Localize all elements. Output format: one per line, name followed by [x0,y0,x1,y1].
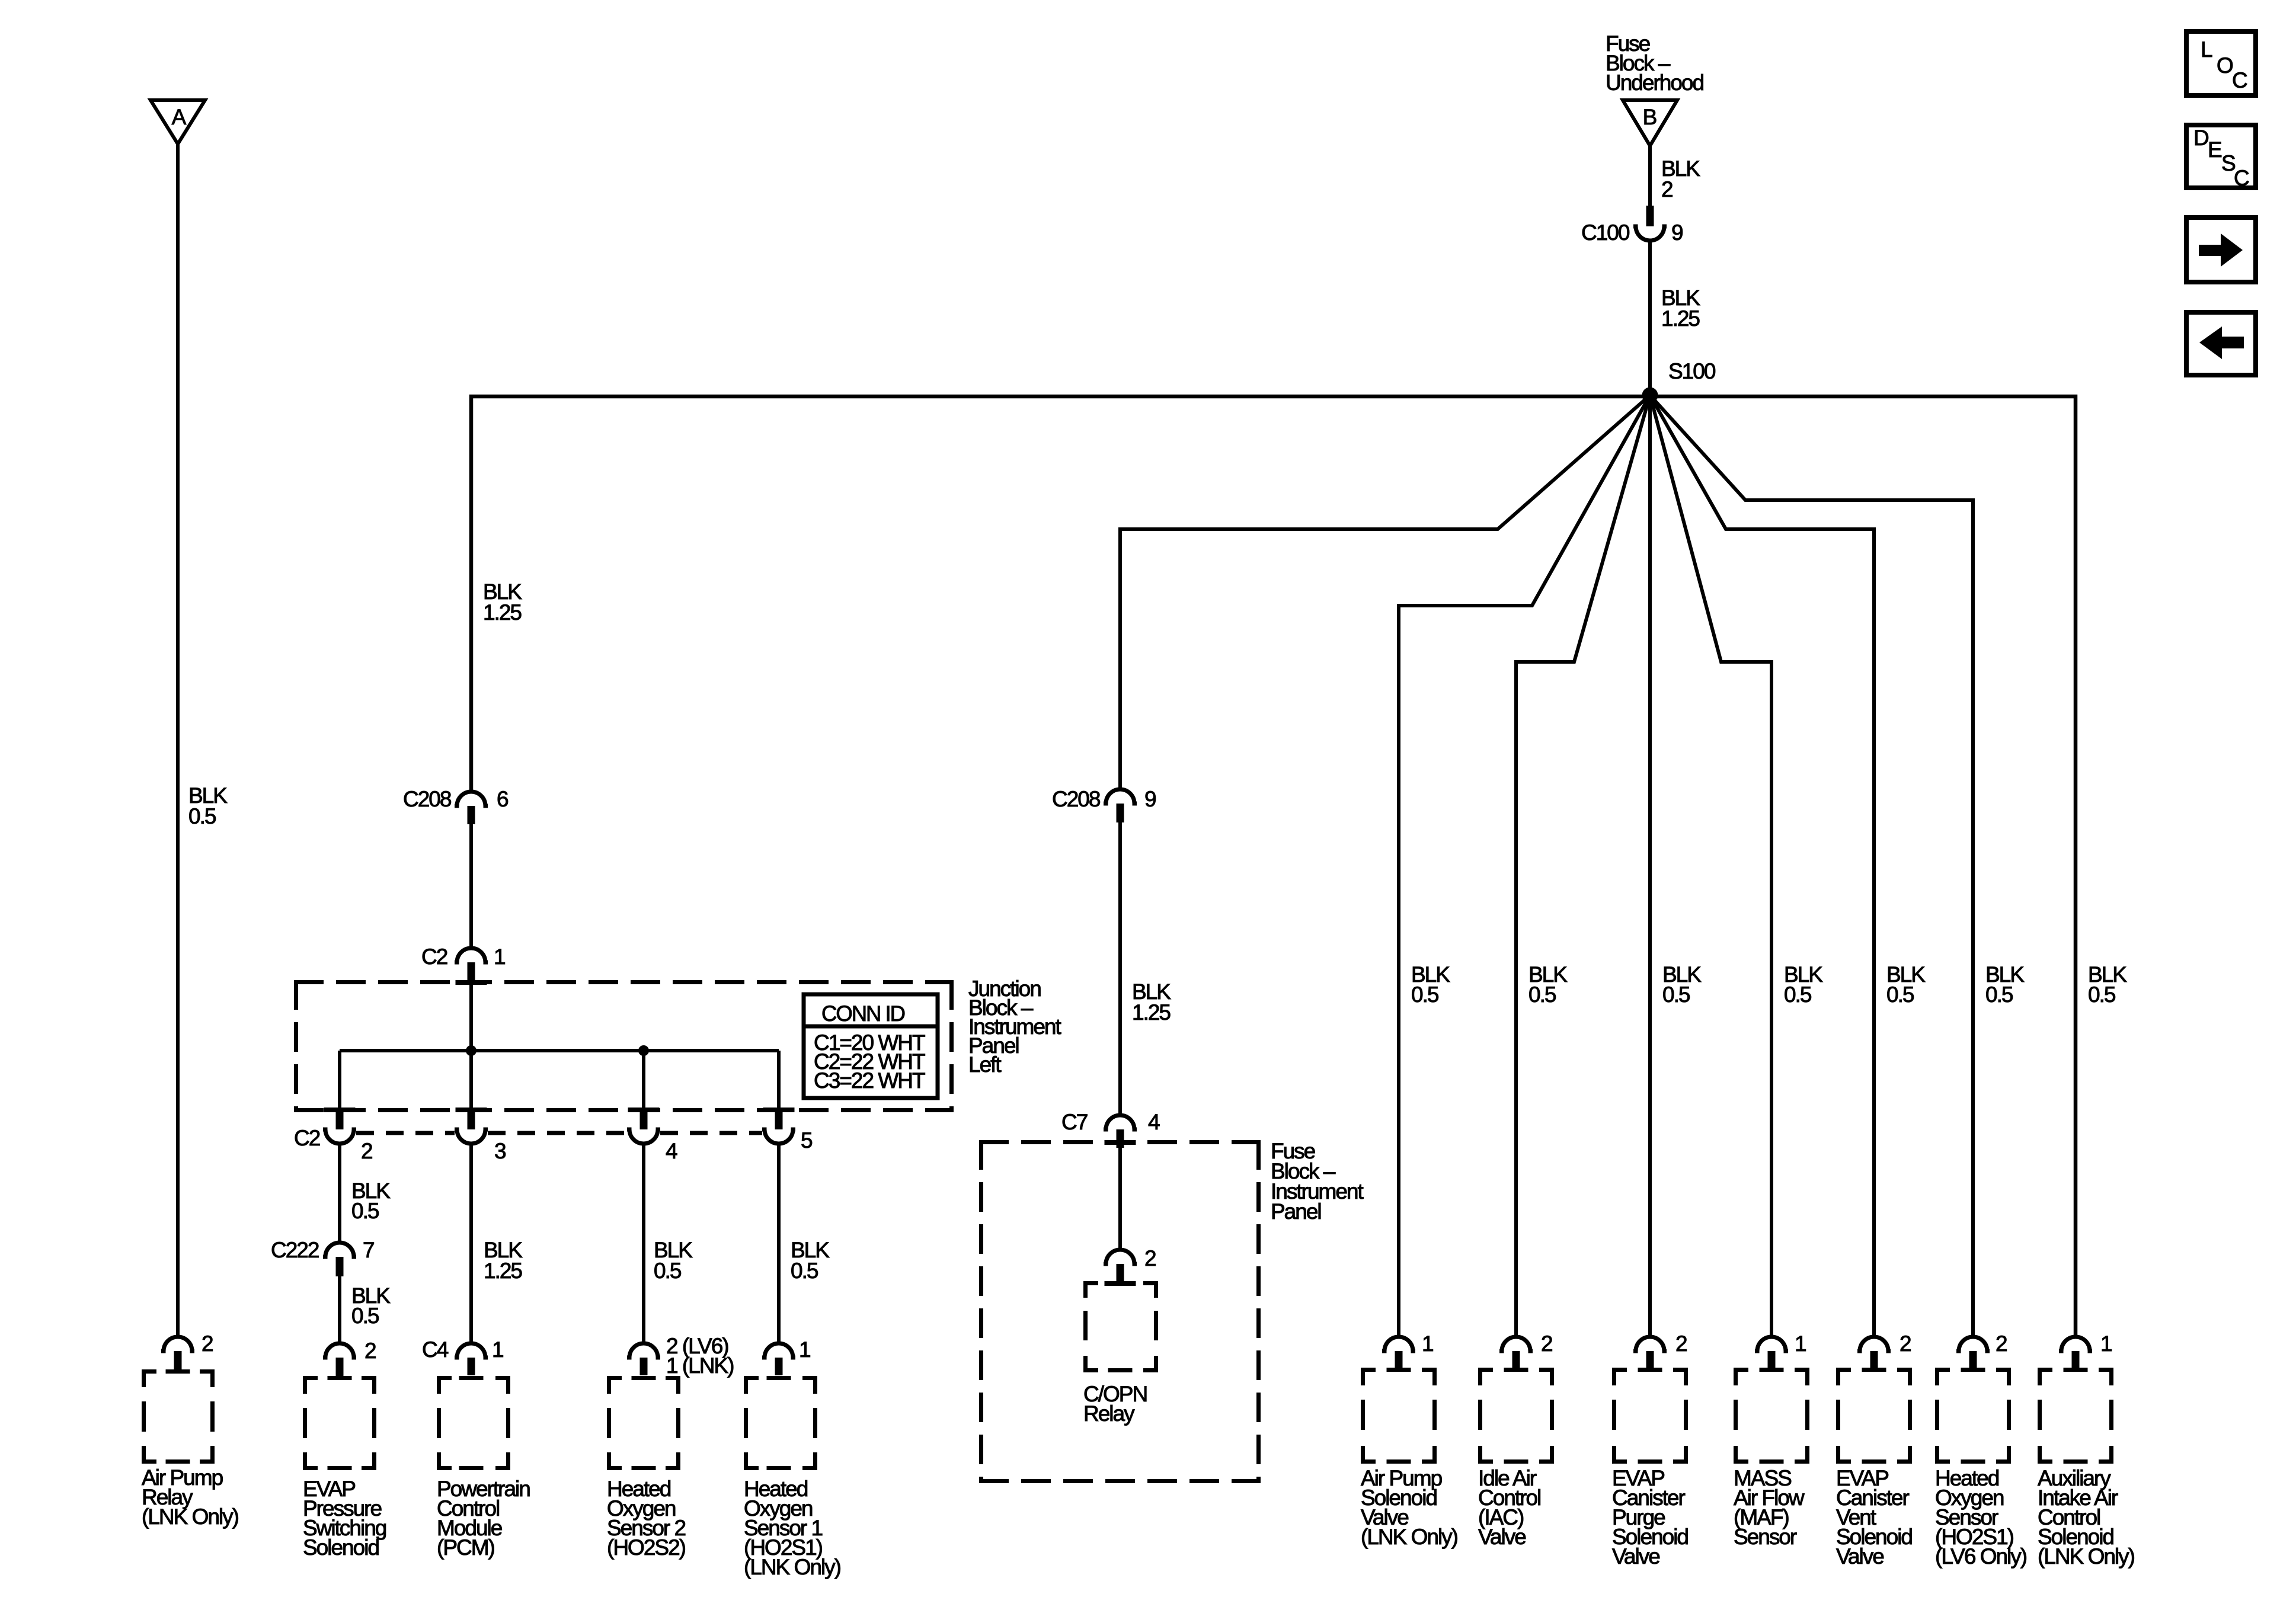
svg-text:O: O [2217,53,2233,78]
connector Heated Oxygen Sensor HO2S1 pin 2 [1956,1331,2007,1369]
connector EVAP Canister Vent Solenoid Valve pin 2 [1857,1331,1911,1369]
CONN ID table [804,994,938,1098]
svg-text:3: 3 [494,1139,506,1163]
svg-text:0.5: 0.5 [1784,982,1812,1007]
connector EVAP solenoid pin 2 [323,1339,376,1376]
svg-text:2: 2 [1996,1331,2007,1356]
wire A to Air Pump Relay [176,144,180,1337]
DESC legend box [2186,125,2256,190]
connector HO2S2 pins [627,1334,734,1378]
svg-text:C100: C100 [1581,220,1630,245]
svg-text:4: 4 [1148,1110,1160,1134]
svg-text:1: 1 [492,1337,503,1362]
component box Heated Oxygen Sensor HO2S1 [1935,1368,2011,1464]
svg-text:1: 1 [494,945,505,969]
component box EVAP Canister Vent Solenoid Valve [1836,1368,1912,1464]
wire stub to C2-4 [642,1051,645,1112]
svg-text:0.5: 0.5 [791,1259,818,1283]
component box Air Pump Solenoid Valve [1361,1368,1437,1464]
svg-text:9: 9 [1671,220,1683,245]
junction block dashed box [294,980,954,1112]
label BLK 1.25 [483,580,522,625]
svg-text:Valve: Valve [1836,1544,1884,1569]
svg-text:(LNK Only): (LNK Only) [142,1505,239,1529]
wire C208-9 to C7-4 [1118,822,1122,1115]
junction node [638,1045,649,1056]
label C/OPN Relay [1083,1382,1147,1426]
svg-text:Underhood: Underhood [1606,71,1704,95]
wire internal bus [340,1049,779,1052]
svg-text:1: 1 [1795,1331,1806,1356]
connector EVAP Canister Purge Solenoid Valve pin 2 [1633,1331,1687,1369]
svg-text:S100: S100 [1668,359,1716,383]
component box Heated Oxygen Sensor 1 [744,1376,817,1470]
svg-text:9: 9 [1144,787,1156,811]
splice S100 [1642,388,1658,404]
svg-text:2: 2 [1661,177,1673,201]
label BLK 1.25 [1132,980,1171,1025]
label BLK 0.5 [654,1238,693,1283]
svg-text:L: L [2201,37,2212,62]
connector C4 pin 1 [422,1337,503,1375]
connector C100 pin 9 [1581,206,1683,245]
svg-text:C3=22 WHT: C3=22 WHT [814,1068,925,1093]
svg-text:Valve: Valve [1478,1525,1526,1549]
wire C2-1 into junction block [469,984,473,1051]
label Auxiliary Intake Air Control Solenoid [2038,1466,2135,1569]
connector C222 pin 7 [271,1238,374,1276]
svg-text:C2: C2 [421,945,447,969]
connector Auxiliary Intake Air Control Solenoid pin 1 [2059,1331,2112,1369]
wire C208-6 to C2-1 [469,824,473,948]
wire S100 to Heated Oxygen Sensor HO2S1 [1650,395,1973,1337]
label BLK 0.5 [1411,962,1450,1007]
label EVAP Canister Purge Solenoid Valve [1612,1466,1688,1569]
connector C2 pin 2 [323,1112,372,1163]
wire C100 to S100 [1648,241,1652,395]
connector C/OPN relay pin 2 [1104,1246,1156,1282]
svg-text:1.25: 1.25 [483,600,522,625]
label BLK 0.5 [2088,962,2127,1007]
label BLK 0.5 [1528,962,1568,1007]
connector C7 pin 4 [1061,1110,1160,1148]
svg-text:Relay: Relay [1083,1401,1135,1426]
label Heated Oxygen Sensor HO2S1 [1935,1466,2027,1569]
svg-text:(LV6 Only): (LV6 Only) [1935,1544,2027,1569]
svg-text:1.25: 1.25 [1661,306,1700,331]
component box C/OPN relay [1083,1281,1158,1372]
label Idle Air Control Valve [1478,1466,1540,1549]
svg-text:2: 2 [1675,1331,1687,1356]
svg-text:0.5: 0.5 [1886,982,1914,1007]
svg-text:(HO2S2): (HO2S2) [607,1535,686,1560]
junction node [466,1045,477,1056]
label BLK 0.5 [1784,962,1823,1007]
connector HO2S1 pin 1 [762,1337,810,1375]
wire B to C100 [1648,146,1652,206]
svg-text:C208: C208 [1052,787,1100,811]
svg-text:0.5: 0.5 [1662,982,1690,1007]
label Junction Block - Instrument Panel Left [968,977,1062,1077]
label BLK 0.5 [1886,962,1926,1007]
wire S100 to Idle Air Control Valve [1516,395,1650,1337]
connector row C2 dashed line [294,1126,762,1150]
main ground bus wire [471,396,2076,1337]
label Heated Oxygen Sensor 2 (HO2S2) [607,1477,686,1560]
label BLK 0.5 [351,1179,391,1223]
component box Heated Oxygen Sensor 2 [607,1376,680,1470]
connector C208 pin 9 [1052,787,1156,822]
svg-text:1: 1 [1422,1331,1433,1356]
wire S100 to Air Pump Solenoid Valve [1399,395,1650,1337]
left-arrow legend box [2186,312,2256,375]
svg-text:0.5: 0.5 [2088,982,2116,1007]
wire C7-4 to C/OPN relay [1118,1148,1122,1250]
wire stub to C2-3 [469,1051,473,1112]
component box Idle Air Control Valve [1478,1368,1554,1464]
label Heated Oxygen Sensor 1 (HO2S1) (LNK Only) [744,1477,841,1579]
svg-text:(LNK Only): (LNK Only) [1361,1525,1458,1549]
svg-text:1: 1 [799,1337,810,1362]
svg-text:7: 7 [363,1238,374,1262]
svg-text:C222: C222 [271,1238,319,1262]
wire C222 down [338,1276,341,1343]
svg-text:1.25: 1.25 [484,1259,522,1283]
off-page connector triangle B [1623,100,1677,146]
label S100 [1668,359,1716,383]
label Air Pump Relay [142,1465,239,1529]
fuse block instrument panel dashed box [979,1140,1261,1483]
svg-text:5: 5 [801,1128,813,1153]
svg-text:C7: C7 [1061,1110,1088,1134]
svg-text:C2: C2 [294,1126,320,1150]
wire stub to C2-5 [777,1051,781,1112]
label EVAP Canister Vent Solenoid Valve [1836,1466,1912,1569]
label BLK 1.25 [484,1238,523,1283]
label Air Pump Solenoid Valve [1361,1466,1458,1549]
svg-text:Valve: Valve [1612,1544,1659,1569]
label BLK 0.5 [791,1238,830,1283]
connector MASS Air Flow Sensor pin 1 [1755,1331,1806,1369]
svg-text:C208: C208 [403,787,451,811]
component box EVAP Pressure Switching Solenoid [303,1376,376,1470]
svg-text:6: 6 [497,787,508,811]
wire stub to C2-2 [338,1051,341,1112]
label Fuse Block - Underhood [1606,31,1704,95]
svg-text:Sensor: Sensor [1734,1525,1797,1549]
wire C2-4 down [642,1144,645,1343]
right-arrow legend box [2186,217,2256,282]
svg-text:Panel: Panel [1271,1199,1321,1224]
svg-text:D: D [2193,126,2208,150]
component box Air Pump Relay [142,1369,215,1464]
LOC legend box [2186,31,2256,95]
label BLK 0.5 [1662,962,1702,1007]
svg-text:C4: C4 [422,1337,449,1362]
svg-text:0.5: 0.5 [1411,982,1439,1007]
svg-text:1: 1 [2100,1331,2112,1356]
connector Idle Air Control Valve pin 2 [1499,1331,1552,1369]
label BLK 0.5 [1985,962,2025,1007]
wire S100 to EVAP Canister Purge Solenoid Valve [1648,395,1652,1337]
svg-text:2: 2 [202,1331,213,1356]
svg-text:0.5: 0.5 [1528,982,1556,1007]
component box Auxiliary Intake Air Control Solenoid [2038,1368,2113,1464]
svg-text:A: A [172,105,187,129]
label Fuse Block - Instrument Panel [1271,1139,1364,1224]
svg-text:2: 2 [1541,1331,1552,1356]
connector C2 pin 5 [762,1112,813,1153]
component box MASS Air Flow Sensor [1734,1368,1809,1464]
wire C2-5 down [777,1144,781,1343]
wire C2-3 down [469,1144,473,1343]
label BLK 2 [1661,156,1700,201]
component box Powertrain Control Module [437,1376,510,1470]
connector C2 pin 4 [627,1112,677,1163]
svg-text:0.5: 0.5 [188,804,216,828]
component box EVAP Canister Purge Solenoid Valve [1612,1368,1688,1464]
svg-text:2: 2 [361,1139,372,1163]
svg-text:(LNK Only): (LNK Only) [744,1555,841,1579]
svg-text:0.5: 0.5 [351,1304,379,1328]
svg-text:2: 2 [1144,1246,1156,1270]
wire S100 to EVAP Canister Vent Solenoid Valve [1650,395,1874,1337]
label BLK 0.5 [351,1283,391,1328]
svg-text:1.25: 1.25 [1132,1000,1171,1025]
connector C2 pin 1 [421,945,505,984]
svg-text:E: E [2208,137,2222,162]
off-page connector triangle A [151,100,205,144]
svg-text:2: 2 [1900,1331,1911,1356]
connector Air Pump Solenoid Valve pin 1 [1382,1331,1433,1369]
svg-text:(PCM): (PCM) [437,1535,495,1560]
svg-text:CONN ID: CONN ID [821,1001,904,1026]
label EVAP Pressure Switching Solenoid [303,1477,386,1560]
label MASS Air Flow Sensor [1734,1466,1805,1549]
svg-text:C: C [2234,166,2249,190]
svg-text:2: 2 [364,1339,376,1363]
connector C208 pin 6 [403,787,508,824]
label Powertrain Control Module (PCM) [437,1477,530,1560]
label BLK 0.5 [188,783,228,828]
svg-text:0.5: 0.5 [351,1199,379,1223]
connector Air Pump Relay pin 2 [161,1331,213,1369]
wire C2-2 down [338,1144,341,1243]
svg-text:1 (LNK): 1 (LNK) [666,1353,734,1378]
wire S100 to C208-9 [1120,395,1650,789]
svg-text:B: B [1643,105,1657,129]
svg-text:4: 4 [666,1139,677,1163]
svg-text:0.5: 0.5 [654,1259,682,1283]
svg-text:(LNK Only): (LNK Only) [2038,1544,2135,1569]
svg-text:Left: Left [968,1052,1002,1077]
svg-text:S: S [2221,151,2235,175]
wire S100 to MASS Air Flow Sensor [1650,395,1771,1337]
svg-text:Solenoid: Solenoid [303,1535,379,1560]
svg-text:C: C [2232,68,2247,92]
label BLK 1.25 [1661,286,1700,331]
svg-text:0.5: 0.5 [1985,982,2013,1007]
connector C2 pin 3 [455,1112,506,1163]
